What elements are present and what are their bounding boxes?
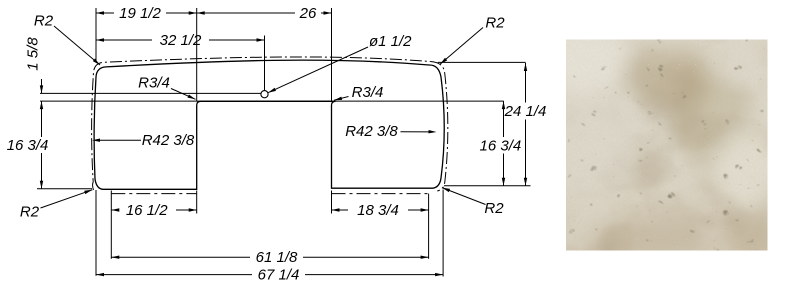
svg-text:24 1/4: 24 1/4: [504, 103, 547, 120]
svg-text:R2: R2: [34, 13, 54, 30]
svg-text:ø1 1/2: ø1 1/2: [369, 33, 412, 50]
svg-text:R42 3/8: R42 3/8: [142, 132, 195, 149]
svg-text:1 5/8: 1 5/8: [25, 37, 42, 71]
svg-text:R2: R2: [485, 15, 505, 32]
svg-text:67 1/4: 67 1/4: [258, 267, 300, 284]
svg-text:19 1/2: 19 1/2: [119, 5, 161, 22]
svg-text:R3/4: R3/4: [352, 84, 384, 101]
svg-text:16 1/2: 16 1/2: [126, 202, 168, 219]
svg-text:61 1/8: 61 1/8: [256, 249, 298, 266]
svg-text:R42 3/8: R42 3/8: [345, 123, 398, 140]
svg-text:18 3/4: 18 3/4: [357, 202, 399, 219]
svg-text:R2: R2: [20, 204, 40, 221]
svg-text:R2: R2: [484, 200, 504, 217]
svg-text:16 3/4: 16 3/4: [7, 137, 49, 154]
svg-text:R3/4: R3/4: [138, 75, 170, 92]
svg-text:16 3/4: 16 3/4: [480, 137, 522, 154]
svg-text:32 1/2: 32 1/2: [160, 32, 202, 49]
svg-text:26: 26: [299, 5, 317, 22]
